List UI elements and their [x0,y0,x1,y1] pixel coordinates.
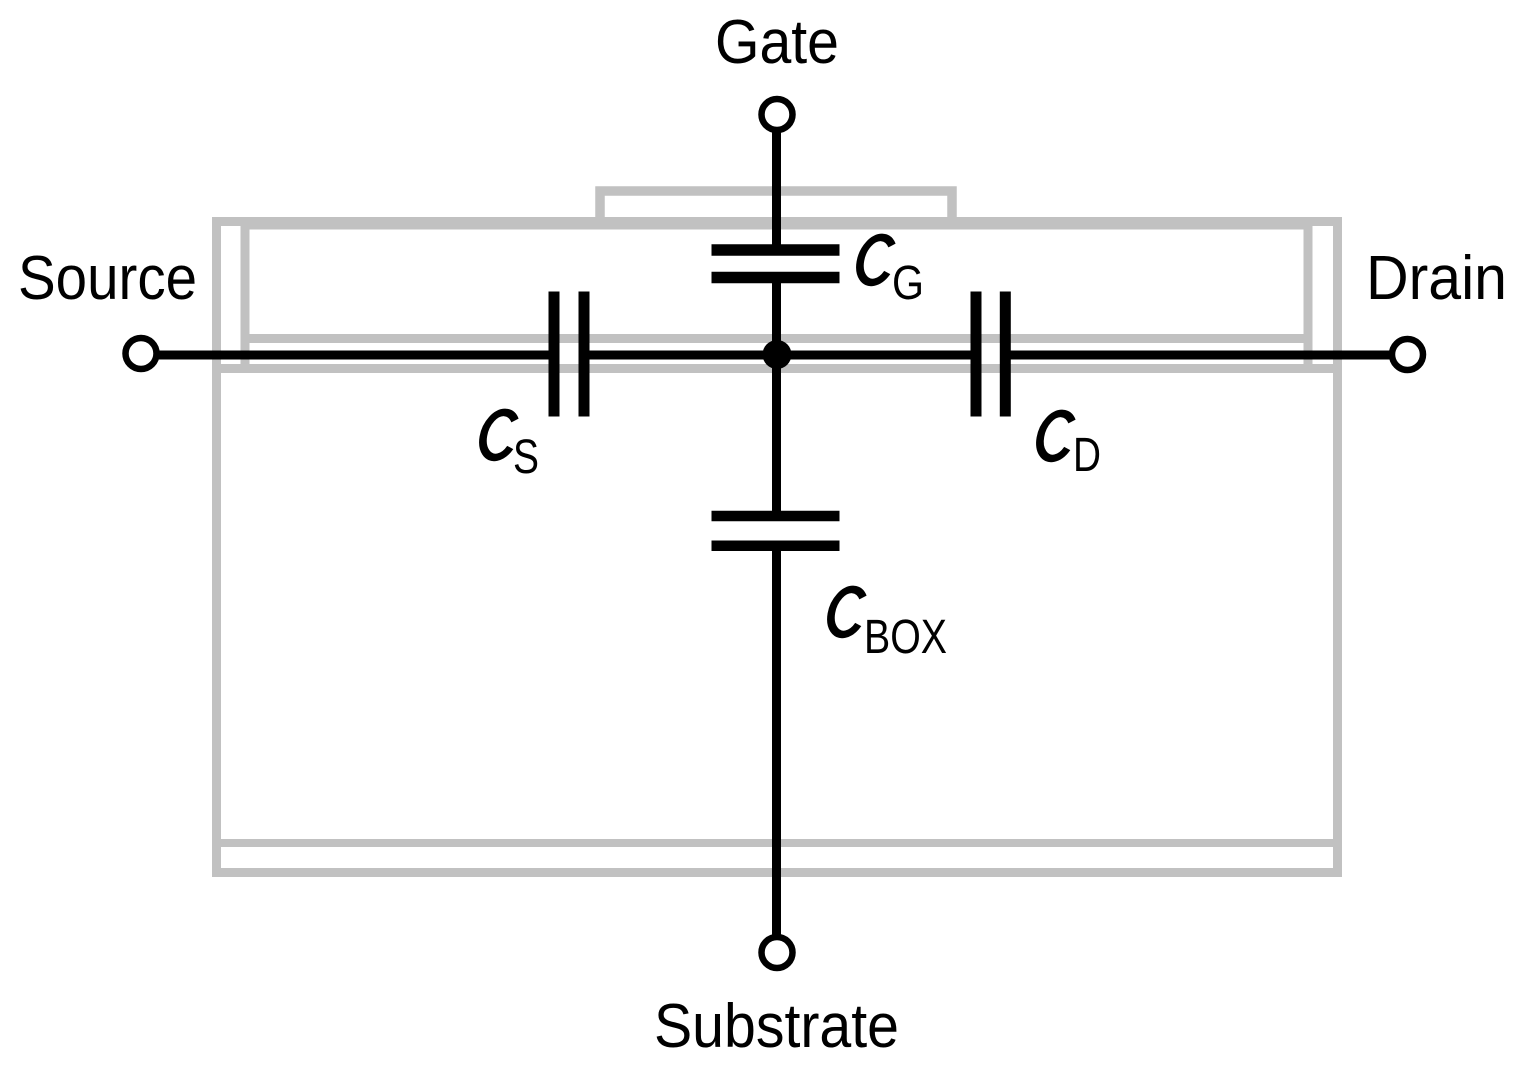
substrate bottom inner line [212,839,1342,847]
label CG [856,237,895,282]
silicon film layer right edge [1304,221,1313,373]
capacitor CBOX plates [712,516,840,546]
buried oxide bottom edge [212,364,1342,373]
wire Cs to node [584,351,777,360]
gate terminal [762,99,793,130]
wire node to Cd [777,351,976,360]
capacitor CG plates [712,250,840,278]
source terminal [126,338,157,369]
silicon film layer top edge [241,221,1313,230]
label CBOX [827,589,866,634]
label CS [479,412,518,457]
wire Cbox to substrate terminal [772,546,781,936]
silicon film layer left edge [241,221,250,373]
svg-text:D: D [1073,429,1101,482]
node (center junction dot) [763,340,792,369]
svg-text:Gate: Gate [715,8,839,77]
device cross-section outer body (substrate box) [217,222,1338,873]
wire Cd to drain [1005,351,1390,360]
label CD [1036,413,1075,458]
wire Cg to node [772,277,781,354]
svg-text:S: S [513,431,539,484]
svg-text:Substrate: Substrate [654,992,899,1061]
wire gate terminal to Cg [772,131,781,250]
gate electrode outline [600,191,952,226]
substrate terminal [762,937,793,968]
svg-text:BOX: BOX [864,611,947,664]
drain terminal [1392,339,1423,370]
svg-text:Source: Source [18,244,197,313]
svg-text:Drain: Drain [1366,244,1507,313]
silicon film bottom edge [241,334,1313,343]
svg-text:G: G [892,257,924,310]
wire source to Cs [157,351,554,360]
capacitor CD plates [976,292,1005,417]
wire node to Cbox [772,354,781,516]
capacitor CS plates [554,292,584,417]
